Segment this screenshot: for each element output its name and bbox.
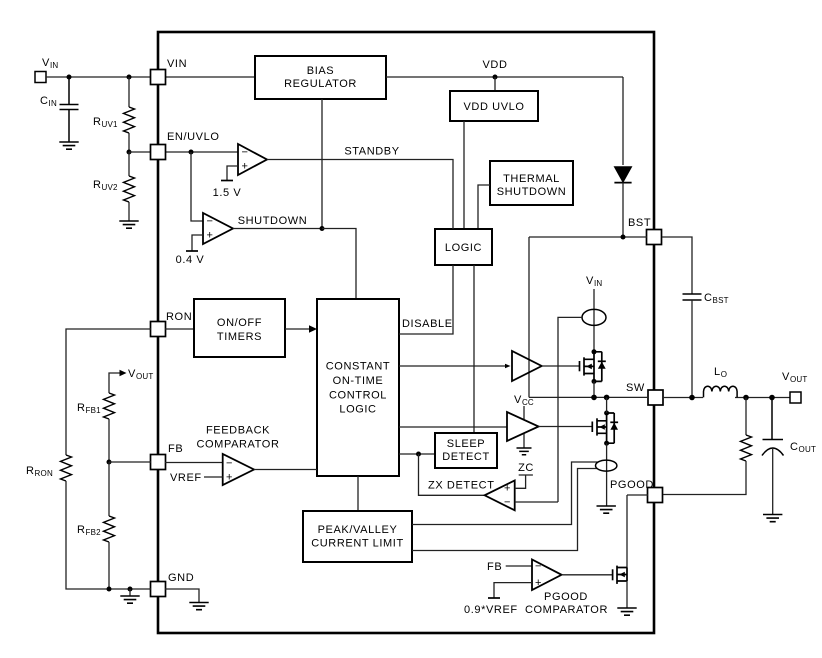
- wire SW line: [529, 396, 648, 398]
- node CBST-SW: [689, 395, 695, 401]
- node SW-Q2: [604, 395, 610, 401]
- arrow VOUT feedback tap: [109, 373, 120, 393]
- pin RON: [151, 322, 166, 337]
- ground external rail: [129, 589, 131, 596]
- ground low-side sense: [597, 506, 616, 513]
- pin SW: [648, 390, 663, 405]
- ground COUT: [763, 515, 782, 522]
- wire VCC stem: [523, 406, 525, 419]
- node sleep/zx: [416, 452, 421, 457]
- wire RRON to ground rail: [66, 481, 151, 589]
- svg-text:−: −: [535, 561, 542, 573]
- pin EN/UVLO: [151, 145, 166, 160]
- svg-text:ZC: ZC: [518, 462, 534, 474]
- svg-text:VIN: VIN: [167, 58, 187, 70]
- pin FB: [151, 455, 166, 470]
- wire PGOOD pin to FET drain: [627, 495, 648, 568]
- block LOGIC: [435, 229, 492, 265]
- capacitor CBST: [683, 294, 702, 300]
- svg-text:SW: SW: [626, 382, 645, 394]
- svg-text:COMPARATOR: COMPARATOR: [525, 604, 608, 616]
- block THERMAL SHUTDOWN: [490, 161, 573, 205]
- op-amp SHUTDOWN comparator: [203, 213, 233, 244]
- current sense low-side ZC: [596, 460, 617, 471]
- wire BST pin to CBST: [662, 237, 692, 294]
- node BST diode: [621, 235, 626, 240]
- svg-text:+: +: [226, 472, 233, 484]
- svg-text:ZX DETECT: ZX DETECT: [428, 480, 495, 492]
- svg-text:PEAK/VALLEY: PEAK/VALLEY: [318, 524, 398, 536]
- svg-text:BIAS: BIAS: [307, 65, 334, 77]
- node SHUTDOWN: [320, 226, 325, 231]
- svg-text:VREF: VREF: [170, 472, 202, 484]
- wire EN node to EN/UVLO pin: [129, 151, 151, 153]
- current source VIN sense: [582, 309, 606, 325]
- wire Q1 source to SW: [593, 381, 595, 397]
- node RFB2 ground: [107, 587, 112, 592]
- svg-text:+: +: [535, 577, 542, 589]
- node Q2 source: [604, 441, 609, 446]
- wire VIN terminal to VIN pin: [46, 76, 151, 78]
- wire RON pin to timers: [165, 328, 194, 330]
- wire feedback comparator to COT: [254, 469, 317, 471]
- node COUT: [769, 395, 775, 401]
- wire VDD rail: [386, 76, 623, 78]
- svg-text:RON: RON: [166, 311, 192, 323]
- wire STANDBY: [267, 160, 453, 230]
- block BIAS REGULATOR: [255, 56, 386, 99]
- wire ZX minus input to current sense: [515, 501, 558, 503]
- wire Q2 source to sense: [606, 443, 608, 506]
- reference 0.4 V: [192, 235, 203, 251]
- node VIN-CIN: [67, 75, 72, 80]
- svg-text:+: +: [241, 161, 248, 173]
- wire COT to sleep detect: [399, 453, 435, 455]
- svg-text:DETECT: DETECT: [442, 451, 490, 463]
- wire RFB2 to ground rail: [108, 542, 110, 589]
- wire pull-up to PGOOD pin: [663, 461, 746, 495]
- node Q2 drain: [604, 411, 609, 416]
- wire FB node to FB pin: [109, 461, 151, 463]
- wire RFB1 to FB node: [108, 419, 110, 462]
- block ON/OFF TIMERS: [194, 299, 285, 357]
- node Q1 source: [592, 379, 597, 384]
- pin PGOOD: [648, 488, 663, 503]
- svg-text:GND: GND: [168, 572, 194, 584]
- pin GND: [151, 582, 166, 597]
- ground GND pin: [189, 603, 208, 610]
- svg-text:SLEEP: SLEEP: [447, 438, 485, 450]
- ground PGOOD FET: [617, 608, 636, 615]
- diode D1: [614, 167, 631, 182]
- svg-text:−: −: [206, 216, 213, 228]
- resistor RRON: [61, 455, 72, 481]
- wire SW to Q2 drain: [606, 397, 608, 413]
- node EN/UVLO: [189, 150, 194, 155]
- reference 0.9*VREF: [494, 583, 532, 598]
- wire diode to BST node: [622, 183, 624, 237]
- wire CBST to SW: [691, 300, 693, 398]
- node FB: [107, 460, 112, 465]
- wire VREF to comparator: [204, 476, 223, 478]
- wire LOGIC to sleep detect: [473, 265, 475, 433]
- svg-text:FB: FB: [168, 443, 183, 455]
- wire node to ZX detect output: [419, 454, 485, 495]
- block CONSTANT ON-TIME CONTROL LOGIC U-COT: [317, 299, 399, 476]
- svg-text:FB: FB: [487, 561, 502, 573]
- wire VDD to VDD UVLO: [494, 77, 496, 91]
- IC boundary: [158, 32, 654, 633]
- wire Q3 source to ground: [626, 581, 628, 608]
- node SW-Q1: [591, 395, 597, 401]
- svg-text:−: −: [226, 458, 233, 470]
- wire EN node down to shutdown comparator: [191, 152, 203, 221]
- transistor Q3 PGOOD FET: [613, 566, 627, 584]
- transistor Q2 low-side FET: [592, 413, 618, 443]
- wire bias regulator to shutdown node: [321, 99, 323, 229]
- wire VDD UVLO to LOGIC: [463, 121, 465, 229]
- svg-text:BST: BST: [628, 217, 651, 229]
- svg-text:PGOOD: PGOOD: [544, 591, 588, 603]
- wire VDD rail down to diode: [622, 77, 624, 165]
- svg-text:ON-TIME: ON-TIME: [333, 375, 384, 387]
- svg-text:−: −: [504, 497, 511, 509]
- op-amp high-side gate driver: [512, 351, 542, 381]
- wire current limit lower tap to sense: [412, 469, 598, 551]
- wire VIN pin to bias regulator: [165, 76, 255, 78]
- node VDD: [493, 75, 498, 80]
- resistor RFB1: [104, 393, 115, 419]
- svg-text:−: −: [241, 147, 248, 159]
- wire RON pin to RRON: [66, 329, 151, 455]
- wire GND pin internal ground: [165, 589, 199, 603]
- transistor Q1 high-side FET: [580, 352, 606, 382]
- wire high-side sense to ZX minus: [558, 317, 582, 502]
- svg-text:SHUTDOWN: SHUTDOWN: [238, 215, 308, 227]
- op-amp low-side gate driver: [507, 412, 539, 441]
- node VIN-RUV1: [127, 75, 132, 80]
- reference 1.5 V: [227, 166, 238, 181]
- terminal VIN: [35, 72, 46, 83]
- op-amp feedback comparator: [223, 454, 254, 485]
- wire driver to low-side gate: [539, 426, 593, 428]
- svg-text:VDD: VDD: [482, 59, 507, 71]
- capacitor CIN: [60, 77, 79, 142]
- net ZC stub: [515, 475, 533, 488]
- pin BST: [647, 230, 662, 245]
- block SLEEP DETECT: [435, 433, 497, 468]
- resistor RUV1: [128, 77, 130, 152]
- svg-text:ON/OFF: ON/OFF: [217, 317, 262, 329]
- block PEAK/VALLEY CURRENT LIMIT: [303, 511, 412, 562]
- wire COT to current limit: [357, 476, 359, 511]
- node Q1 drain: [592, 349, 597, 354]
- terminal VOUT: [790, 392, 801, 403]
- wire BST down through high-side driver: [528, 237, 530, 397]
- svg-text:TIMERS: TIMERS: [217, 331, 262, 343]
- svg-text:+: +: [206, 230, 213, 242]
- op-amp ZX DETECT comparator: [485, 480, 515, 510]
- ground CIN: [59, 142, 78, 149]
- wire BST rail: [529, 236, 647, 238]
- svg-text:EN/UVLO: EN/UVLO: [167, 131, 220, 143]
- svg-text:CONSTANT: CONSTANT: [326, 361, 390, 373]
- svg-text:CONTROL: CONTROL: [329, 390, 387, 402]
- wire EN/UVLO pin to comparator: [165, 151, 238, 153]
- wire COT to low-side driver: [399, 426, 507, 428]
- wire timers to COT logic: [285, 328, 310, 330]
- op-amp PGOOD comparator: [532, 560, 562, 591]
- wire current limit upper tap to sense: [412, 462, 598, 525]
- svg-text:THERMAL: THERMAL: [503, 173, 560, 185]
- block VDD UVLO: [450, 91, 538, 121]
- wire FB pin to feedback comparator: [165, 462, 223, 464]
- svg-text:0.4 V: 0.4 V: [176, 254, 205, 266]
- svg-text:1.5 V: 1.5 V: [213, 187, 242, 199]
- svg-text:DISABLE: DISABLE: [402, 318, 453, 330]
- op-amp EN comparator: [238, 144, 267, 175]
- svg-text:CURRENT LIMIT: CURRENT LIMIT: [311, 538, 404, 550]
- wire VIN source stem: [593, 289, 595, 352]
- svg-text:COMPARATOR: COMPARATOR: [196, 439, 279, 451]
- svg-text:LOGIC: LOGIC: [445, 242, 482, 254]
- svg-text:SHUTDOWN: SHUTDOWN: [497, 186, 567, 198]
- wire SW pin to output: [663, 397, 790, 399]
- wire thermal shutdown to logic: [478, 185, 490, 229]
- resistor RUV2: [128, 152, 130, 221]
- resistor PGOOD pull-up: [745, 398, 747, 436]
- wire DISABLE: [399, 265, 453, 334]
- svg-text:+: +: [504, 483, 511, 495]
- capacitor COUT: [763, 398, 784, 440]
- wire shutdown node to COT logic: [322, 229, 356, 300]
- pin VIN: [151, 70, 166, 85]
- svg-text:STANDBY: STANDBY: [344, 146, 399, 158]
- svg-text:VDD UVLO: VDD UVLO: [463, 101, 524, 113]
- svg-text:REGULATOR: REGULATOR: [284, 78, 357, 90]
- ground RUV2: [119, 221, 138, 228]
- wire FB to pgood comparator: [506, 565, 532, 567]
- wire comparator to pgood FET gate: [562, 574, 613, 576]
- ground low-side driver: [523, 434, 525, 448]
- node EN divider: [127, 150, 132, 155]
- node pullup: [743, 395, 749, 401]
- wire COT to high-side driver: [399, 365, 505, 367]
- inductor LO: [704, 386, 738, 397]
- wire SHUTDOWN: [233, 228, 322, 230]
- svg-text:LOGIC: LOGIC: [339, 404, 376, 416]
- svg-text:FEEDBACK: FEEDBACK: [206, 425, 270, 437]
- wire driver to high-side gate: [542, 365, 580, 367]
- resistor RFB2: [108, 462, 110, 516]
- node ground symbol tap: [128, 587, 133, 592]
- svg-text:0.9*VREF: 0.9*VREF: [464, 604, 518, 616]
- svg-text:PGOOD: PGOOD: [610, 479, 654, 491]
